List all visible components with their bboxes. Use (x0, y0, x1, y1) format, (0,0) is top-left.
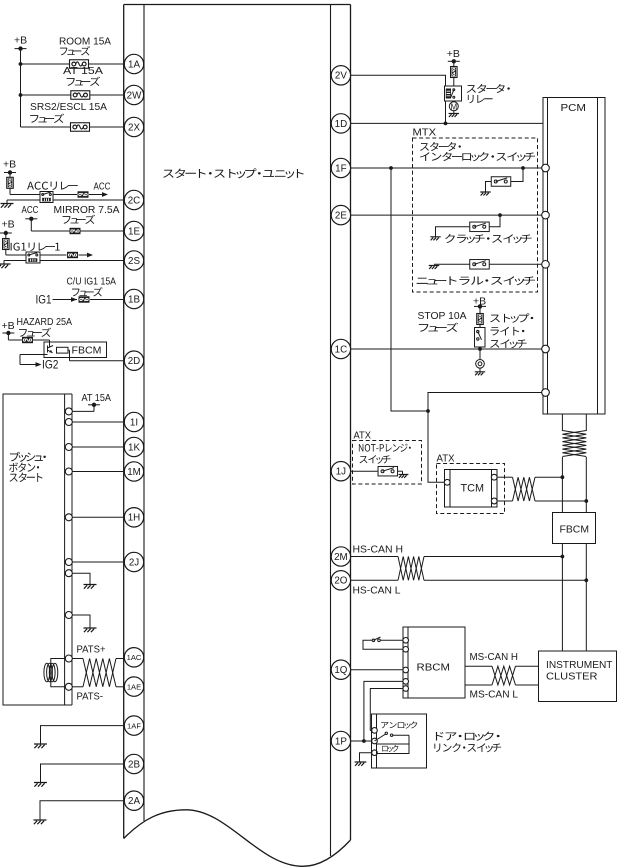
svg-text:STOP 10A: STOP 10A (418, 310, 467, 322)
svg-text:ATX: ATX (354, 430, 372, 442)
svg-text:ATX: ATX (437, 453, 455, 465)
relay IG1 relay 1 (6, 252, 40, 263)
wire CAN trunk lower segment (561, 544, 589, 652)
svg-text:TCM: TCM (461, 483, 485, 495)
switch clutch switch (436, 215, 501, 236)
wire MS-CAN H (465, 665, 539, 667)
twisted pair HS-CAN (398, 557, 424, 581)
PCM pin (neutral line) (542, 261, 550, 269)
twisted pair MS-CAN (492, 666, 516, 685)
twisted pair PATS (83, 659, 116, 687)
svg-text:2M: 2M (334, 552, 348, 563)
svg-text:2E: 2E (335, 211, 347, 222)
label C/U IG1 15A fuse (67, 276, 117, 297)
svg-text:2S: 2S (128, 256, 140, 267)
wire PATS+ to 1AC (72, 658, 124, 660)
connector pin 2X (124, 117, 143, 136)
label INSTRUMENT CLUSTER (546, 659, 613, 683)
svg-text:1D: 1D (335, 119, 348, 130)
wire to pin 2X (21, 126, 125, 128)
wire CAN trunk mid segment (562, 457, 586, 513)
svg-text:2O: 2O (334, 576, 347, 587)
motor M (starter) (449, 101, 458, 111)
svg-text:ACC: ACC (22, 204, 39, 216)
label neutral switch (417, 276, 535, 285)
fuse (starter relay feed) (451, 61, 458, 86)
label MTX (413, 127, 437, 139)
svg-text:1E: 1E (128, 226, 140, 237)
fuse (IG1 relay feed) (3, 233, 10, 255)
switch blade (door lock) (375, 732, 410, 744)
ground (2B) (34, 783, 47, 787)
connector pin 1AC (124, 648, 143, 667)
label AT 15A fuse (63, 65, 103, 86)
wire IG2 output (20, 355, 48, 367)
svg-text:HS-CAN L: HS-CAN L (353, 585, 401, 597)
switch starter interlock (486, 168, 524, 192)
label ACC (output arrow) (94, 181, 111, 193)
wire pushstart to 1M (72, 471, 124, 473)
svg-text:HAZARD 25A: HAZARD 25A (17, 316, 73, 328)
svg-text:AT 15A: AT 15A (63, 65, 103, 77)
wire MS-CAN L (465, 684, 539, 686)
connector pin 1J (331, 462, 350, 481)
RBCM pin 1 (403, 638, 409, 644)
label starter interlock switch (420, 142, 535, 161)
svg-text:1B: 1B (128, 294, 140, 305)
label MIRROR 7.5A fuse (54, 204, 120, 224)
svg-text:MS-CAN L: MS-CAN L (470, 689, 519, 701)
svg-text:+B: +B (3, 159, 16, 171)
label NOT-P range switch (359, 444, 411, 464)
wire AT15A to pin (72, 405, 94, 412)
label clutch switch (445, 234, 531, 243)
wire PATS- to 1AE (72, 686, 124, 688)
connector pin 1P (331, 731, 350, 750)
label STOP 10A fuse (418, 310, 467, 332)
svg-text:AT 15A: AT 15A (82, 392, 112, 404)
fuse STOP 10A (477, 306, 484, 324)
transistor (inside FBCM) (48, 340, 54, 353)
wire CAN trunk upper segment (562, 414, 586, 431)
svg-text:1I: 1I (130, 417, 138, 428)
label stop light switch (490, 313, 533, 348)
wire +B vertical bus (19, 49, 23, 127)
wire pushstart ground 2 (72, 615, 90, 628)
push-start pin 9 (65, 655, 72, 662)
push-start pin 5 (65, 514, 72, 521)
label TCM (461, 483, 485, 495)
+B supply node (starter relay) (447, 48, 460, 64)
wire ACC relay to ground (7, 200, 40, 204)
push-start pin 2 (65, 419, 72, 426)
ground (push start 1) (84, 585, 97, 589)
wire starter motor ground (453, 111, 455, 114)
wire ACC relay to pin 2C (53, 199, 124, 201)
door switch pin 2 (372, 738, 378, 744)
label IG2 (42, 358, 59, 372)
wire 1AF to ground (41, 726, 125, 744)
connector pin 1A (124, 54, 143, 73)
svg-text:2A: 2A (128, 796, 140, 807)
label ATX (TCM) (437, 453, 455, 465)
switch stop light switch (475, 325, 486, 348)
connector pin 1D (331, 114, 350, 133)
connector pin 1Q (331, 660, 350, 679)
ground (IG1 relay) (0, 264, 11, 268)
label FBCM (gateway) (560, 524, 590, 536)
door switch pin 1 (372, 728, 378, 734)
svg-text:1P: 1P (335, 736, 347, 747)
label door lock link switch (434, 732, 501, 753)
svg-text:FBCM: FBCM (72, 345, 102, 357)
svg-text:2C: 2C (128, 195, 141, 206)
label starter relay (467, 84, 510, 103)
lamp stop light (476, 360, 485, 369)
coil PATS antenna (44, 663, 58, 682)
relay ACC relay (10, 192, 53, 203)
wire 1F branch down (391, 168, 430, 413)
ground (clutch switch) (430, 237, 440, 241)
fuse SRS2/ESCL 15A (71, 123, 90, 132)
RBCM pin 3 (403, 667, 409, 673)
connector pin 2O (331, 571, 350, 590)
svg-text:2J: 2J (129, 557, 139, 568)
wire RBCM pin5 down (370, 689, 403, 731)
wire IG1 relay output arrow (40, 252, 93, 258)
connector pin 2A (124, 791, 143, 810)
PCM pin (2E line) (542, 211, 550, 219)
svg-text:1H: 1H (128, 513, 141, 524)
switch neutral switch (434, 260, 542, 270)
PCM pin (1F line) (542, 164, 550, 172)
module door lock link switch box (372, 714, 427, 768)
connector pin 2V (331, 66, 350, 85)
module FBCM (front body control) (44, 342, 107, 358)
svg-text:IG1: IG1 (36, 293, 52, 307)
svg-text:PCM: PCM (561, 102, 587, 114)
wire IG1 relay to ground (4, 261, 26, 265)
svg-text:+B: +B (14, 35, 27, 47)
connector pin 1F (331, 158, 350, 177)
wire 2V to starter relay coil (351, 75, 448, 125)
svg-text:SRS2/ESCL 15A: SRS2/ESCL 15A (30, 101, 107, 113)
svg-text:1F: 1F (335, 163, 346, 174)
label start-stop unit (163, 168, 303, 178)
door switch pin 3 (372, 750, 378, 756)
svg-text:2B: 2B (128, 759, 140, 770)
node ACC feed (25, 217, 37, 221)
wire stop switch to 1C line (479, 347, 481, 360)
fuse MIRROR 7.5A (70, 228, 81, 234)
wire 1D to PCM (351, 122, 543, 124)
PCM pin (1C line) (542, 345, 550, 353)
svg-text:2V: 2V (335, 71, 347, 82)
svg-text:2X: 2X (128, 122, 140, 133)
label ACC relay (27, 182, 78, 190)
ground (ACC relay) (1, 204, 14, 208)
wire 2O HS-CAN L (351, 579, 586, 581)
+B supply node (ACC relay) (3, 159, 16, 175)
ground (interlock switch) (480, 192, 490, 196)
svg-text:HS-CAN H: HS-CAN H (353, 544, 404, 556)
label HS-CAN L (353, 585, 401, 597)
ground (NOT-P switch) (399, 475, 409, 478)
svg-text:2D: 2D (128, 356, 141, 367)
connector pin 2S (124, 251, 143, 270)
label PATS- (77, 691, 104, 703)
push-start pin 10 (65, 683, 72, 690)
TCM pin (left) (444, 479, 450, 485)
wire FBCM to pin 2D (68, 350, 124, 361)
start-stop unit box (スタート・ストップ・ユニット) (124, 5, 351, 867)
wire IG1 to pin 1B (53, 296, 125, 302)
module PCM box (543, 98, 605, 415)
wire pushstart to 1H (72, 516, 124, 518)
label FBCM (72, 345, 102, 357)
label RBCM (417, 662, 451, 674)
wire 1C to PCM (351, 347, 542, 351)
wire TCM CAN rails (497, 475, 588, 503)
RBCM pin 5 (403, 686, 409, 692)
wire 1Q to RBCM (351, 669, 403, 671)
wire RBCM pin4 down (362, 681, 403, 742)
connector pin 2B (124, 754, 143, 773)
ground (starter motor) (449, 114, 459, 118)
wire to pin 1A (21, 63, 125, 65)
push-start pin 7 (65, 570, 72, 577)
svg-text:PATS+: PATS+ (77, 644, 106, 656)
connector pin 2W (124, 85, 143, 104)
svg-text:+B: +B (447, 48, 460, 60)
fuse HAZARD 25A (22, 337, 33, 343)
wire IG1 relay to pin 2S (40, 260, 124, 262)
svg-text:IG2: IG2 (42, 358, 59, 372)
wire 2B to ground (41, 764, 125, 783)
label push button start (9, 452, 46, 482)
PCM pin (TCM line) (542, 389, 550, 397)
ground (push start 2) (84, 628, 97, 632)
wire pushstart ground 1 (72, 573, 90, 584)
connector pin 1H (124, 508, 143, 527)
connector pin 1AE (124, 677, 143, 696)
connector pin 1C (331, 339, 350, 358)
label MS-CAN L (470, 689, 519, 701)
connector pin 1E (124, 221, 143, 240)
TCM pin (right L) (491, 498, 497, 504)
svg-text:ACC: ACC (94, 181, 111, 193)
svg-text:RBCM: RBCM (417, 662, 451, 674)
RBCM pin 4 (403, 679, 409, 685)
label IG1 (36, 293, 52, 307)
svg-text:1K: 1K (128, 442, 140, 453)
fuse (ACC relay feed) (7, 173, 14, 195)
svg-text:PATS-: PATS- (77, 691, 104, 703)
twisted pair CAN trunk (562, 431, 586, 457)
MTX dashed box (413, 138, 538, 292)
push-start pin 3 (65, 444, 72, 451)
label unlock (アンロック) (381, 721, 417, 728)
switch NOT-P range (378, 466, 402, 476)
ground (stop lamp) (475, 372, 485, 376)
push button start unit box (プッシュ・ボタン・スタート) (3, 394, 72, 705)
svg-text:FBCM: FBCM (560, 524, 590, 536)
ground (2A) (34, 820, 47, 824)
+B supply node (stop light) (473, 295, 486, 308)
label ACC (source node) (22, 204, 39, 216)
svg-text:+B: +B (473, 295, 486, 307)
ATX dashed box (TCM) (437, 464, 505, 514)
wire 2A to ground (40, 801, 124, 820)
ground (door switch) (355, 762, 367, 766)
label ATX (NOT-P) (354, 430, 372, 442)
ATX dashed box (NOT-P) (353, 441, 422, 485)
fuse AT 15A (71, 91, 90, 100)
svg-text:MIRROR 7.5A: MIRROR 7.5A (54, 204, 120, 216)
+B supply node (hazard) (2, 320, 15, 335)
svg-text:C/U IG1 15A: C/U IG1 15A (67, 276, 117, 288)
wire ACC to pin 1E (31, 219, 124, 231)
switch (RBCM request) (363, 637, 403, 649)
svg-text:ROOM 15A: ROOM 15A (59, 36, 111, 48)
wire PATS coil loop (51, 659, 66, 687)
RBCM pin 2 (403, 647, 409, 653)
connector pin 1I (124, 412, 143, 431)
label HS-CAN H (353, 544, 404, 556)
connector pin 2M (331, 547, 350, 566)
wire 1J to NOT-P switch (351, 470, 378, 472)
connector pin 1K (124, 437, 143, 456)
module INSTRUMENT CLUSTER box (539, 651, 617, 702)
svg-text:MS-CAN H: MS-CAN H (470, 651, 519, 663)
connector pin 2J (124, 552, 143, 571)
svg-text:1C: 1C (335, 344, 348, 355)
label PATS+ (77, 644, 106, 656)
ground (1AF) (34, 744, 47, 748)
+B supply node (IG1 relay) (0, 219, 15, 236)
wire 2M HS-CAN H (351, 556, 563, 558)
wire 1F to PCM (351, 166, 542, 170)
connector pin 1AF (124, 716, 143, 735)
svg-text:1J: 1J (336, 467, 346, 478)
label HAZARD 25A fuse (17, 316, 73, 337)
svg-text:1Q: 1Q (334, 665, 347, 676)
label ROOM 15A fuse (59, 36, 111, 56)
svg-text:INSTRUMENT: INSTRUMENT (546, 659, 613, 671)
wire pushstart to 1I (72, 421, 124, 423)
connector pin 1B (124, 289, 143, 308)
push-start pin 8 (65, 612, 72, 619)
module RBCM box (403, 627, 465, 698)
svg-text:1AE: 1AE (127, 682, 141, 691)
svg-text:1AC: 1AC (127, 653, 142, 662)
resistor (inside FBCM) (57, 347, 69, 353)
label SRS2/ESCL 15A fuse (30, 101, 107, 123)
connector pin 2E (331, 205, 350, 224)
svg-text:+B: +B (2, 219, 15, 231)
wire ACC relay output arrow (53, 191, 108, 197)
wire hazard fuse feed (8, 333, 49, 340)
connector pin 2D (124, 351, 143, 370)
svg-text:M: M (450, 102, 457, 111)
svg-text:1M: 1M (127, 467, 141, 478)
svg-text:2W: 2W (127, 90, 142, 101)
relay starter relay (445, 86, 462, 101)
TCM pin (right H) (491, 474, 497, 480)
label PCM (561, 102, 587, 114)
wire pushstart to 2J (72, 561, 124, 563)
wire 1P to door switch (351, 740, 372, 742)
fuse ROOM 15A (70, 60, 89, 69)
wire to pin 2W (21, 94, 125, 96)
wire stop lamp ground (479, 368, 481, 372)
svg-text:1A: 1A (128, 59, 140, 70)
push-start pin 1 (65, 408, 72, 415)
wire door switch pin3 ground (360, 753, 372, 762)
label MS-CAN H (470, 651, 519, 663)
module FBCM box (CAN gateway) (553, 513, 596, 544)
connector pin 2C (124, 190, 143, 209)
node AT 15A feed (82, 392, 112, 407)
wire 2E to PCM (351, 213, 542, 217)
svg-text:CLUSTER: CLUSTER (546, 671, 598, 683)
ground (neutral switch) (429, 266, 439, 270)
label IG1 relay 1 (11, 243, 60, 251)
push-start pin 4 (65, 468, 72, 475)
+B supply node (top left) (14, 35, 27, 51)
module TCM box (445, 470, 498, 508)
svg-text:+B: +B (2, 320, 15, 332)
lock contact box (ロック) (377, 744, 410, 754)
connector pin 1M (124, 462, 143, 481)
push-start pin 6 (65, 559, 72, 566)
twisted pair TCM HS-CAN (513, 477, 536, 501)
svg-text:MTX: MTX (413, 127, 437, 139)
svg-text:1AF: 1AF (127, 721, 141, 730)
wire PCM to TCM (428, 393, 542, 483)
wire pushstart to 1K (72, 446, 124, 448)
